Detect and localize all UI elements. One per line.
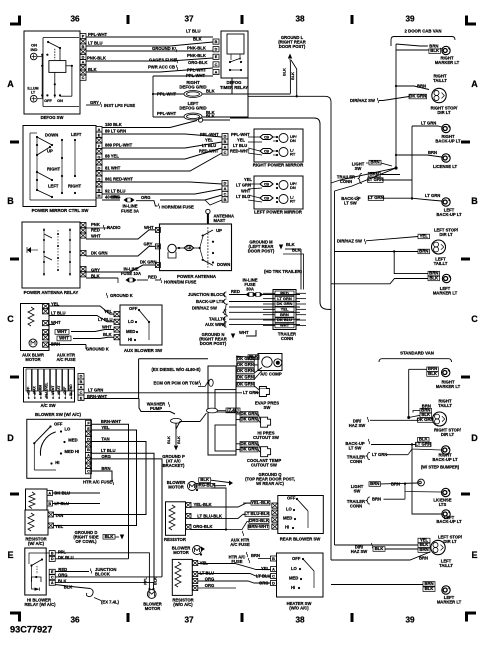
svg-text:DK GRN: DK GRN <box>277 301 293 306</box>
svg-text:INST LPS FUSE: INST LPS FUSE <box>104 103 135 108</box>
svg-text:BLK: BLK <box>105 534 115 539</box>
svg-text:(EX DIESEL W/O 4L80-E): (EX DIESEL W/O 4L80-E) <box>151 367 201 372</box>
svg-text:OFF: OFF <box>44 99 52 103</box>
svg-text:LT BLU: LT BLU <box>51 311 66 316</box>
svg-text:BRN-WHT: BRN-WHT <box>101 419 121 424</box>
svg-text:BRN: BRN <box>424 581 433 586</box>
svg-text:BRN: BRN <box>372 497 381 502</box>
svg-text:D: D <box>215 48 218 52</box>
svg-text:BLK: BLK <box>429 275 439 280</box>
svg-text:36: 36 <box>70 616 80 625</box>
svg-text:LO: LO <box>65 427 72 432</box>
svg-text:MED HI: MED HI <box>65 449 80 454</box>
svg-text:D: D <box>87 438 90 442</box>
svg-text:MAX: MAX <box>33 386 37 394</box>
svg-text:DK GRN: DK GRN <box>237 374 254 379</box>
svg-text:LT GRN: LT GRN <box>421 121 436 126</box>
svg-text:LT BLU: LT BLU <box>88 41 103 46</box>
svg-text:CB: CB <box>264 135 270 139</box>
svg-text:BI-LEVEL: BI-LEVEL <box>45 382 49 397</box>
svg-text:E: E <box>471 550 477 560</box>
svg-text:W/ REAR A/C): W/ REAR A/C) <box>256 481 284 486</box>
svg-text:BLK: BLK <box>425 586 435 591</box>
svg-text:PNK-BLK: PNK-BLK <box>187 53 206 58</box>
svg-text:CONN: CONN <box>350 504 362 509</box>
svg-text:B: B <box>471 196 478 206</box>
svg-text:BRN: BRN <box>251 553 260 558</box>
svg-text:(W/O A/C): (W/O A/C) <box>289 606 309 611</box>
svg-text:B: B <box>224 140 227 144</box>
svg-text:CB: CB <box>264 149 270 153</box>
svg-text:B: B <box>51 551 54 555</box>
svg-text:E: E <box>51 570 54 574</box>
svg-text:BLK: BLK <box>193 37 202 42</box>
svg-text:POWER MIRROR CTRL SW: POWER MIRROR CTRL SW <box>32 208 90 213</box>
svg-text:LT BLU: LT BLU <box>98 317 113 322</box>
svg-text:FUSE 10A: FUSE 10A <box>121 271 141 276</box>
svg-text:PNK-BLK: PNK-BLK <box>187 46 206 51</box>
svg-text:DN: DN <box>290 185 296 190</box>
svg-text:VENT: VENT <box>51 386 55 395</box>
svg-text:DK GRN: DK GRN <box>237 382 254 387</box>
svg-text:LEFT: LEFT <box>48 184 59 189</box>
svg-text:HORN/DM FUSE: HORN/DM FUSE <box>162 205 195 210</box>
svg-text:ORG: ORG <box>259 581 269 586</box>
svg-text:LEFT: LEFT <box>71 132 82 137</box>
svg-text:BRN-WHT: BRN-WHT <box>248 524 269 529</box>
svg-text:RT: RT <box>290 199 296 204</box>
svg-text:G: G <box>98 155 101 159</box>
svg-text:BRN: BRN <box>419 547 428 552</box>
svg-text:MED: MED <box>283 516 292 521</box>
svg-text:861 RED-WHT: 861 RED-WHT <box>105 177 133 182</box>
svg-text:D: D <box>272 581 275 585</box>
svg-text:WHT: WHT <box>57 329 67 334</box>
svg-text:DEFOG SW: DEFOG SW <box>41 115 64 120</box>
svg-text:BLOWER SW (W/ A/C): BLOWER SW (W/ A/C) <box>35 412 81 417</box>
svg-text:LTS: LTS <box>439 502 447 507</box>
svg-text:HTR A/C FUSE: HTR A/C FUSE <box>83 480 112 485</box>
svg-text:TAILLT: TAILLT <box>433 78 447 83</box>
svg-text:30A: 30A <box>246 286 254 291</box>
svg-text:YEL: YEL <box>420 233 429 238</box>
svg-text:DIR LT: DIR LT <box>439 232 453 237</box>
svg-text:DOOR POST): DOOR POST) <box>279 44 306 49</box>
svg-text:YEL: YEL <box>281 306 289 311</box>
svg-text:PNK: PNK <box>91 222 100 227</box>
svg-text:A: A <box>215 70 218 74</box>
svg-text:LT GRN: LT GRN <box>372 452 387 457</box>
svg-text:LO: LO <box>286 507 293 512</box>
svg-text:HORN/DM FUSE: HORN/DM FUSE <box>164 280 197 285</box>
svg-text:STANDARD VAN: STANDARD VAN <box>400 351 434 356</box>
svg-text:DK BLU: DK BLU <box>58 555 74 560</box>
svg-text:B: B <box>82 45 85 49</box>
svg-text:GROUND K: GROUND K <box>152 46 175 51</box>
svg-text:TAILLT: TAILLT <box>438 403 452 408</box>
svg-text:GAGES FUSE: GAGES FUSE <box>149 58 177 63</box>
svg-text:A: A <box>51 581 54 585</box>
svg-text:LT: LT <box>31 91 36 95</box>
svg-text:OF COWL): OF COWL) <box>75 539 97 544</box>
svg-text:TAN: TAN <box>55 513 63 518</box>
svg-text:AUX BLOWER SW: AUX BLOWER SW <box>124 348 163 353</box>
svg-text:DK GRN: DK GRN <box>241 411 258 416</box>
svg-text:ORG: ORG <box>205 583 215 588</box>
svg-text:CONN: CONN <box>281 336 293 341</box>
svg-text:LT SW: LT SW <box>344 201 357 206</box>
svg-text:A: A <box>272 567 275 571</box>
svg-text:LT BLU: LT BLU <box>101 448 116 453</box>
svg-text:RIGHT POWER MIRROR: RIGHT POWER MIRROR <box>253 163 304 168</box>
svg-text:C: C <box>224 151 227 155</box>
svg-text:TAILLT: TAILLT <box>434 261 448 266</box>
svg-text:GROUND K: GROUND K <box>110 293 133 298</box>
svg-text:WHT: WHT <box>280 323 290 328</box>
svg-text:P: P <box>82 35 85 39</box>
svg-text:WHT: WHT <box>59 336 69 341</box>
svg-text:DIR LT: DIR LT <box>437 110 451 115</box>
svg-text:BLK: BLK <box>428 371 438 376</box>
svg-text:DK BLU: DK BLU <box>277 317 292 322</box>
svg-text:C: C <box>87 470 90 474</box>
svg-text:37: 37 <box>184 15 194 24</box>
svg-text:DK GRN: DK GRN <box>409 94 426 99</box>
svg-text:E: E <box>87 427 90 431</box>
svg-text:UP: UP <box>216 228 222 233</box>
svg-text:BACK-UP LT: BACK-UP LT <box>435 139 461 144</box>
svg-text:YEL: YEL <box>101 425 110 430</box>
svg-text:HAZ SW: HAZ SW <box>349 423 366 428</box>
svg-text:DK GRN: DK GRN <box>140 260 157 265</box>
svg-text:B: B <box>98 188 101 192</box>
svg-text:C: C <box>7 314 14 324</box>
svg-text:B: B <box>87 448 90 452</box>
svg-text:MOTOR: MOTOR <box>173 550 189 555</box>
svg-text:RESISTOR: RESISTOR <box>164 537 187 542</box>
svg-text:BLK: BLK <box>286 242 295 247</box>
svg-text:WHT: WHT <box>239 330 249 335</box>
svg-text:BLK: BLK <box>375 546 385 551</box>
svg-text:LT BLU: LT BLU <box>202 143 216 148</box>
svg-text:GRY: GRY <box>90 100 99 105</box>
svg-text:BRN: BRN <box>428 150 437 155</box>
svg-text:MED: MED <box>126 329 135 334</box>
svg-text:WHT: WHT <box>91 234 101 239</box>
svg-text:LT GRN: LT GRN <box>236 183 251 188</box>
svg-text:PPL: PPL <box>58 549 67 554</box>
svg-text:LT SW: LT SW <box>349 446 362 451</box>
svg-text:ON: ON <box>57 99 63 103</box>
svg-text:PPL-WHT: PPL-WHT <box>231 132 250 137</box>
svg-text:BACK-UP LT: BACK-UP LT <box>436 212 462 217</box>
svg-text:BLK: BLK <box>206 89 215 94</box>
svg-text:869 PPL-WHT: 869 PPL-WHT <box>105 143 133 148</box>
svg-text:A: A <box>48 491 51 495</box>
svg-text:BRN: BRN <box>370 172 379 177</box>
svg-text:E: E <box>215 55 218 59</box>
svg-text:B: B <box>224 198 227 202</box>
svg-text:DK GRN: DK GRN <box>237 362 254 367</box>
svg-text:BLK: BLK <box>292 248 301 253</box>
svg-text:YEL: YEL <box>237 138 245 143</box>
svg-text:MOTOR: MOTOR <box>25 357 40 362</box>
svg-text:LT BLU: LT BLU <box>233 143 247 148</box>
svg-text:LT GRN: LT GRN <box>368 177 384 182</box>
svg-text:OFF: OFF <box>292 556 301 561</box>
svg-text:BRN: BRN <box>101 466 110 471</box>
svg-text:ORG-BLK: ORG-BLK <box>249 518 270 523</box>
svg-text:WHT: WHT <box>144 225 154 230</box>
svg-text:GROUND K: GROUND K <box>86 347 109 352</box>
svg-text:LT BLU-BLK: LT BLU-BLK <box>244 511 270 516</box>
svg-text:DIR LT: DIR LT <box>443 539 457 544</box>
svg-text:E: E <box>7 550 13 560</box>
svg-text:D: D <box>7 433 14 443</box>
svg-text:B: B <box>215 40 218 44</box>
svg-text:B: B <box>48 502 51 506</box>
svg-text:37: 37 <box>184 616 194 625</box>
svg-text:LEFT POWER MIRROR: LEFT POWER MIRROR <box>254 210 303 215</box>
svg-text:(W/ A/C): (W/ A/C) <box>28 541 45 546</box>
svg-text:36: 36 <box>70 15 80 24</box>
svg-text:SW: SW <box>354 489 361 494</box>
svg-text:HI: HI <box>291 585 295 590</box>
svg-text:A: A <box>224 146 227 150</box>
svg-text:SW: SW <box>264 405 272 410</box>
svg-text:C: C <box>51 576 54 580</box>
svg-text:PPL-WHT: PPL-WHT <box>200 132 219 137</box>
svg-text:HAZ SW: HAZ SW <box>351 549 368 554</box>
svg-text:ORG: ORG <box>101 454 111 459</box>
svg-text:LT BLU: LT BLU <box>256 574 271 579</box>
svg-text:MED: MED <box>289 576 298 581</box>
svg-text:(W/ STEP BUMPER): (W/ STEP BUMPER) <box>421 465 460 470</box>
svg-text:DEFOG GRID: DEFOG GRID <box>179 85 206 90</box>
svg-text:BLK: BLK <box>430 48 440 53</box>
svg-text:38: 38 <box>295 616 305 625</box>
svg-text:MARKER LT: MARKER LT <box>437 600 462 605</box>
svg-text:UP: UP <box>47 149 53 154</box>
svg-text:CB: CB <box>264 196 270 200</box>
svg-text:39: 39 <box>405 15 415 24</box>
svg-text:DK GRN: DK GRN <box>241 417 258 422</box>
svg-text:A: A <box>82 61 85 65</box>
svg-text:DK GRN: DK GRN <box>237 368 254 373</box>
svg-text:BRN: BRN <box>419 248 428 253</box>
svg-text:D: D <box>471 433 478 443</box>
svg-text:RED-WHT: RED-WHT <box>230 149 250 154</box>
svg-text:MED: MED <box>68 437 77 442</box>
svg-text:G: G <box>98 177 101 181</box>
svg-text:DEFOG GRID: DEFOG GRID <box>179 106 206 111</box>
svg-text:C: C <box>82 76 85 80</box>
svg-text:POWER ANTENNA: POWER ANTENNA <box>177 274 217 279</box>
svg-text:C: C <box>224 193 227 197</box>
svg-text:D: D <box>82 55 85 59</box>
svg-text:A: A <box>471 79 478 89</box>
svg-text:LICENSE LT: LICENSE LT <box>433 164 458 169</box>
svg-text:IND: IND <box>31 47 38 52</box>
svg-text:LT GRN: LT GRN <box>425 193 440 198</box>
svg-text:39: 39 <box>405 616 415 625</box>
svg-text:BRN: BRN <box>370 160 379 165</box>
svg-text:TAN: TAN <box>101 437 109 442</box>
svg-text:DOWN: DOWN <box>45 133 58 138</box>
svg-text:LO: LO <box>291 566 298 571</box>
svg-text:FUSE 3A: FUSE 3A <box>121 209 139 214</box>
svg-text:DK GRN: DK GRN <box>241 441 258 446</box>
svg-text:RED-WHT: RED-WHT <box>199 149 219 154</box>
svg-text:ORG: ORG <box>110 195 120 200</box>
svg-text:BLK: BLK <box>283 68 287 76</box>
svg-text:DIR/HAZ SW: DIR/HAZ SW <box>192 306 217 311</box>
svg-text:DK GRN: DK GRN <box>91 251 108 256</box>
svg-text:PPL: PPL <box>144 577 148 585</box>
svg-text:88 YEL: 88 YEL <box>105 154 119 159</box>
svg-text:PPL-WHT: PPL-WHT <box>157 111 177 116</box>
svg-text:ECM OR PCM OR TCM: ECM OR PCM OR TCM <box>154 381 199 386</box>
svg-text:A: A <box>224 187 227 191</box>
svg-text:RIGHT: RIGHT <box>68 184 81 189</box>
svg-text:MOTOR: MOTOR <box>168 485 184 490</box>
svg-text:BACK-UP LTS: BACK-UP LTS <box>196 299 224 304</box>
svg-text:YEL: YEL <box>55 524 64 529</box>
svg-text:BLK: BLK <box>103 332 112 337</box>
svg-text:RELAY (W/ A/C): RELAY (W/ A/C) <box>24 602 56 607</box>
svg-text:A: A <box>87 454 90 458</box>
svg-text:C: C <box>215 63 218 67</box>
svg-text:BLK: BLK <box>291 72 295 80</box>
svg-text:150 BLK: 150 BLK <box>105 122 122 127</box>
svg-text:BLK: BLK <box>167 436 171 444</box>
svg-text:A/C SW: A/C SW <box>40 403 55 408</box>
svg-text:C: C <box>80 391 83 395</box>
svg-text:A/C FUSE: A/C FUSE <box>56 357 75 362</box>
svg-text:DK GRN: DK GRN <box>241 447 258 452</box>
svg-text:D: D <box>98 166 101 170</box>
svg-text:LT GRN: LT GRN <box>368 195 384 200</box>
svg-text:LT BLU: LT BLU <box>186 29 201 34</box>
svg-text:RIGHT: RIGHT <box>47 167 60 172</box>
svg-text:RED: RED <box>280 290 289 295</box>
svg-text:OFF: OFF <box>129 306 138 311</box>
svg-text:BACK-UP LT: BACK-UP LT <box>432 457 458 462</box>
svg-text:YEL: YEL <box>261 566 270 571</box>
svg-text:CUTOUT SW: CUTOUT SW <box>253 435 280 440</box>
svg-text:93C77927: 93C77927 <box>10 625 52 635</box>
svg-text:D: D <box>224 182 227 186</box>
svg-text:CONN: CONN <box>350 459 362 464</box>
svg-text:(W/O A/C): (W/O A/C) <box>173 602 193 607</box>
svg-text:MARKER LT: MARKER LT <box>436 384 461 389</box>
svg-text:MARKER LT: MARKER LT <box>433 291 458 296</box>
svg-text:DEF: DEF <box>63 387 67 394</box>
svg-text:BRACKET): BRACKET) <box>163 463 185 468</box>
svg-text:38: 38 <box>295 15 305 24</box>
svg-text:C: C <box>471 314 478 324</box>
svg-text:TAILLT: TAILLT <box>439 563 453 568</box>
svg-text:LT GRN: LT GRN <box>415 441 431 446</box>
svg-text:CB: CB <box>264 182 270 186</box>
svg-text:CONN: CONN <box>340 179 352 184</box>
svg-text:H: H <box>98 194 101 198</box>
svg-text:A/C FUSE: A/C FUSE <box>230 542 250 547</box>
svg-text:C: C <box>272 574 275 578</box>
svg-text:YEL: YEL <box>104 309 113 314</box>
svg-text:BLK: BLK <box>177 436 181 444</box>
svg-text:WHT: WHT <box>102 324 112 329</box>
svg-text:PUMP: PUMP <box>150 406 162 411</box>
svg-text:OFF: OFF <box>26 387 30 394</box>
svg-text:DIR/HAZ SW: DIR/HAZ SW <box>337 239 362 244</box>
svg-text:BRN: BRN <box>51 342 60 347</box>
svg-text:(HD TRK TRAILER): (HD TRK TRAILER) <box>264 269 303 274</box>
svg-text:BLK: BLK <box>206 114 215 119</box>
svg-text:ORG-BLK: ORG-BLK <box>188 60 208 65</box>
svg-text:LO: LO <box>128 319 135 324</box>
svg-text:A: A <box>7 79 14 89</box>
svg-text:DIR LT: DIR LT <box>441 432 455 437</box>
svg-text:92 LT BLU: 92 LT BLU <box>105 189 125 194</box>
svg-text:TIMER RELAY: TIMER RELAY <box>220 85 248 90</box>
svg-text:BLOCK: BLOCK <box>95 571 110 576</box>
svg-text:BLK: BLK <box>154 577 158 585</box>
svg-text:LT GRN: LT GRN <box>88 388 103 393</box>
svg-text:DIR/HAZ SW: DIR/HAZ SW <box>350 98 375 103</box>
svg-text:PNK-BLK: PNK-BLK <box>87 56 106 61</box>
svg-text:DOOR POST): DOOR POST) <box>248 249 275 254</box>
svg-text:2 DOOR CAB VAN: 2 DOOR CAB VAN <box>405 29 442 34</box>
svg-text:SW: SW <box>355 166 362 171</box>
svg-text:YEL-BLK: YEL-BLK <box>194 502 212 507</box>
svg-text:DN: DN <box>290 138 296 143</box>
svg-text:RED: RED <box>231 289 240 294</box>
svg-text:MARKER LT: MARKER LT <box>435 60 460 65</box>
svg-text:B: B <box>80 380 83 384</box>
svg-text:HEAT: HEAT <box>57 386 61 395</box>
svg-text:DOWN: DOWN <box>217 262 230 267</box>
svg-text:D: D <box>80 375 83 379</box>
svg-text:HI: HI <box>128 337 132 342</box>
svg-text:(EX 7.4L): (EX 7.4L) <box>101 599 120 604</box>
svg-text:LT BLU: LT BLU <box>200 571 215 576</box>
svg-text:CB: CB <box>186 246 192 250</box>
svg-text:A: A <box>80 386 83 390</box>
svg-text:LT BLU-BLK: LT BLU-BLK <box>197 513 222 518</box>
svg-text:ORG-BLK: ORG-BLK <box>195 483 216 488</box>
svg-text:CUTOUT SW: CUTOUT SW <box>251 463 278 468</box>
svg-text:BRN: BRN <box>280 312 289 317</box>
svg-text:RADIO: RADIO <box>107 225 121 230</box>
svg-text:B: B <box>157 245 160 249</box>
svg-text:DK GRN: DK GRN <box>417 417 434 422</box>
svg-text:81 WHT: 81 WHT <box>105 166 121 171</box>
svg-text:OFF: OFF <box>54 421 63 426</box>
svg-text:RED: RED <box>148 275 157 280</box>
svg-text:PWR ACC CB: PWR ACC CB <box>148 65 175 70</box>
svg-text:ORG-BLK: ORG-BLK <box>193 524 213 529</box>
svg-text:REAR BLOWER SW: REAR BLOWER SW <box>280 537 322 542</box>
svg-text:BLK: BLK <box>88 67 97 72</box>
svg-text:A: A <box>98 128 101 132</box>
svg-text:YEL: YEL <box>200 560 209 565</box>
svg-text:A/C COMP: A/C COMP <box>260 372 282 377</box>
svg-text:MAST: MAST <box>214 218 226 223</box>
svg-text:HI: HI <box>55 460 59 465</box>
svg-text:HI: HI <box>285 525 289 530</box>
svg-text:89 LT GRN: 89 LT GRN <box>105 129 126 134</box>
